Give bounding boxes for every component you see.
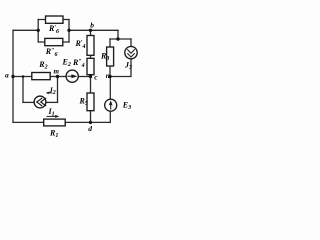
wire: E3 bottom to bottom rail xyxy=(109,111,111,122)
wire: R2 to m xyxy=(50,76,57,78)
current source J2 circle xyxy=(34,96,46,108)
resistor R'6 xyxy=(46,16,64,23)
resistor R5 xyxy=(87,93,94,111)
wire: between R'4 and R''4 xyxy=(90,55,92,58)
svg-text:n: n xyxy=(106,72,110,80)
svg-text:b: b xyxy=(90,21,94,30)
wire: top-left horizontal to R6 combo xyxy=(13,29,38,31)
resistor R''6 xyxy=(45,38,63,45)
wire: E2 circle to node c xyxy=(78,76,90,78)
wire: R3 branch vertical top xyxy=(109,39,111,48)
wire: corner at x=118 down to y=39 xyxy=(117,30,119,39)
node m dot xyxy=(56,75,59,78)
wire: J2 loop bottom left xyxy=(23,101,34,103)
wire: parallel R6 left stub vertical xyxy=(37,20,39,43)
current source J3 circle xyxy=(125,46,137,58)
wire: R6 bottom branch xyxy=(38,41,69,43)
double chevron inside J3 (points down) xyxy=(127,49,134,57)
svg-text:a: a xyxy=(5,71,9,80)
wire: sub-bus y=39 from R3 to J3 xyxy=(110,38,131,40)
resistor R''4 xyxy=(87,58,94,74)
resistor R1 xyxy=(44,119,65,126)
wire: m to E2 circle xyxy=(58,76,67,78)
node b dot xyxy=(89,29,92,32)
wire: top horizontal combo to corner xyxy=(69,29,118,31)
resistor R3 xyxy=(107,47,114,66)
resistor R'4 xyxy=(87,36,94,56)
svg-text:m: m xyxy=(54,68,60,76)
wire: R''4 bottom through node c to R5 xyxy=(90,75,92,93)
source E3 circle xyxy=(105,99,117,111)
node dot: R6 right junction xyxy=(67,29,70,32)
resistor R2 xyxy=(32,73,50,80)
node dot: y39 junction xyxy=(116,37,119,40)
arrow inside E3 (points up) xyxy=(109,100,113,109)
svg-text:d: d xyxy=(88,124,92,133)
source E2 circle xyxy=(66,70,78,82)
node c dot xyxy=(89,75,92,78)
wire: mid horizontal a to R2 xyxy=(13,76,32,78)
wire: J2 loop bottom right xyxy=(46,101,58,103)
wire: J2 loop left vertical xyxy=(22,77,24,103)
wire: R6 top branch xyxy=(38,19,69,21)
current arrow I1 above R1 xyxy=(47,115,60,118)
node dot: J2 loop left junction xyxy=(22,75,25,78)
wire: parallel R6 right stub vertical xyxy=(68,20,70,43)
wire: left rail vertical x=13 xyxy=(12,30,14,122)
wire: bottom rail horizontal y=122 xyxy=(13,121,110,123)
wire: J2 loop right vertical up to m xyxy=(57,77,59,103)
wire: n down to E3 circle xyxy=(109,77,111,100)
wire: b branch down to R'4 xyxy=(90,30,92,35)
arrow inside E2 (points right) xyxy=(67,74,77,78)
node n dot xyxy=(108,75,111,78)
double chevron inside J2 (points left) xyxy=(37,98,47,106)
node d dot xyxy=(89,121,92,124)
node a dot xyxy=(11,75,14,78)
wire: J3 top stub xyxy=(130,39,132,47)
node dot: R6 left junction xyxy=(37,29,40,32)
current arrow of J2 label (points left) xyxy=(46,92,53,95)
wire: R5 bottom to node d xyxy=(90,111,92,123)
wire: R3 bottom to node n xyxy=(109,66,111,77)
wire: J3 bottom stub down and left to n xyxy=(110,59,131,77)
